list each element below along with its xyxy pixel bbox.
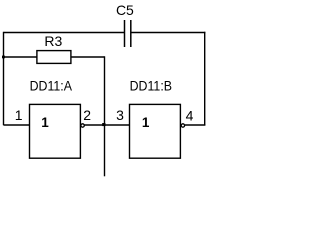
svg-text:1: 1 [15,107,23,123]
wire top horizontal left segment [4,32,125,34]
svg-text:2: 2 [83,107,91,123]
svg-text:DD11:B: DD11:B [130,78,173,94]
wire pin2 to pin3 [84,124,129,126]
svg-text:3: 3 [116,107,124,123]
svg-text:C5: C5 [116,2,134,18]
wire left vertical [3,32,5,125]
pin 4 bubble [181,124,184,127]
wire vertical feedback to node [104,56,106,176]
wire resistor left lead [2,56,37,58]
inverter gate U-DD11:B [130,104,181,158]
svg-text:1: 1 [142,115,150,130]
wire resistor right lead [71,56,105,58]
node junction mid [102,123,105,126]
svg-text:1: 1 [41,115,49,130]
resistor R3 [37,33,71,63]
capacitor C5 [116,2,134,47]
wire top horizontal right segment [131,32,206,34]
inverter gate U-DD11:A [30,104,81,158]
node junction left [2,56,5,59]
pin 2 bubble [81,124,84,127]
wire right vertical [204,32,206,125]
svg-text:R3: R3 [44,33,62,49]
svg-text:DD11:A: DD11:A [30,78,73,94]
wire pin4 to right vertical [185,124,206,126]
svg-text:4: 4 [186,107,194,123]
wire pin 1 [4,124,30,126]
